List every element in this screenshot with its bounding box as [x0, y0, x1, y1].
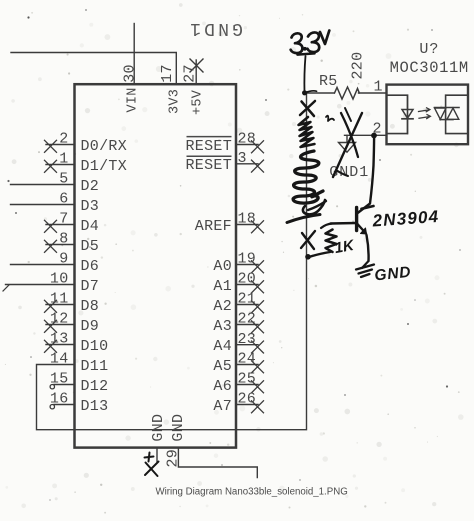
- svg-text:24: 24: [238, 351, 257, 368]
- svg-text:U?: U?: [419, 41, 439, 58]
- svg-text:22: 22: [238, 311, 257, 328]
- svg-text:20: 20: [238, 271, 257, 288]
- svg-text:D9: D9: [81, 318, 100, 335]
- svg-text:9: 9: [59, 251, 68, 268]
- svg-text:23: 23: [238, 331, 257, 348]
- svg-text:D3: D3: [81, 198, 100, 215]
- svg-text:21: 21: [238, 291, 257, 308]
- svg-text:8: 8: [59, 231, 68, 248]
- svg-text:5: 5: [59, 171, 68, 188]
- svg-text:3V3: 3V3: [168, 89, 183, 114]
- svg-text:D7: D7: [81, 278, 100, 295]
- svg-text:D4: D4: [81, 218, 100, 235]
- svg-text:A7: A7: [213, 398, 232, 415]
- svg-text:29: 29: [164, 449, 181, 468]
- svg-text:A1: A1: [213, 278, 232, 295]
- svg-text:15: 15: [50, 371, 69, 388]
- svg-text:A0: A0: [213, 258, 232, 275]
- svg-text:19: 19: [238, 251, 257, 268]
- svg-text:AREF: AREF: [195, 218, 232, 235]
- svg-text:1: 1: [59, 151, 68, 168]
- svg-text:A6: A6: [213, 378, 232, 395]
- svg-text:GND1: GND1: [187, 18, 243, 38]
- svg-text:30: 30: [121, 64, 138, 83]
- svg-text:R5: R5: [319, 73, 338, 90]
- svg-text:A2: A2: [213, 298, 232, 315]
- svg-text:220: 220: [349, 52, 366, 80]
- svg-text:27: 27: [181, 64, 198, 83]
- svg-text:16: 16: [50, 391, 69, 408]
- svg-text:13: 13: [50, 331, 69, 348]
- svg-text:D13: D13: [81, 398, 109, 415]
- svg-text:Wiring Diagram Nano33ble_solen: Wiring Diagram Nano33ble_solenoid_1.PNG: [156, 487, 348, 498]
- svg-text:D11: D11: [81, 358, 109, 375]
- svg-text:2: 2: [59, 131, 68, 148]
- svg-text:A5: A5: [213, 358, 232, 375]
- svg-text:6: 6: [59, 191, 68, 208]
- svg-text:10: 10: [50, 271, 69, 288]
- svg-text:7: 7: [59, 211, 68, 228]
- svg-text:D1/TX: D1/TX: [81, 158, 128, 175]
- svg-text:A4: A4: [213, 338, 232, 355]
- svg-text:18: 18: [238, 211, 257, 228]
- svg-text:1: 1: [374, 79, 383, 96]
- svg-text:3: 3: [238, 150, 247, 167]
- svg-text:12: 12: [50, 311, 69, 328]
- svg-text:VIN: VIN: [126, 87, 141, 112]
- svg-text:25: 25: [238, 371, 257, 388]
- svg-text:D2: D2: [81, 178, 100, 195]
- svg-text:11: 11: [50, 291, 69, 308]
- svg-text:17: 17: [159, 64, 176, 83]
- svg-text:GND: GND: [150, 414, 167, 442]
- svg-text:+5V: +5V: [190, 89, 205, 115]
- svg-text:RESET: RESET: [185, 138, 232, 155]
- svg-text:D8: D8: [81, 298, 100, 315]
- svg-text:D12: D12: [81, 378, 109, 395]
- svg-text:D6: D6: [81, 258, 100, 275]
- svg-text:MOC3011M: MOC3011M: [390, 59, 469, 77]
- svg-text:D10: D10: [81, 338, 109, 355]
- svg-text:D5: D5: [81, 238, 100, 255]
- svg-text:26: 26: [238, 391, 257, 408]
- svg-text:A3: A3: [213, 318, 232, 335]
- svg-text:D0/RX: D0/RX: [81, 138, 128, 155]
- svg-text:14: 14: [50, 351, 69, 368]
- svg-text:GND: GND: [170, 414, 187, 442]
- svg-text:28: 28: [238, 131, 257, 148]
- svg-text:RESET: RESET: [185, 157, 232, 174]
